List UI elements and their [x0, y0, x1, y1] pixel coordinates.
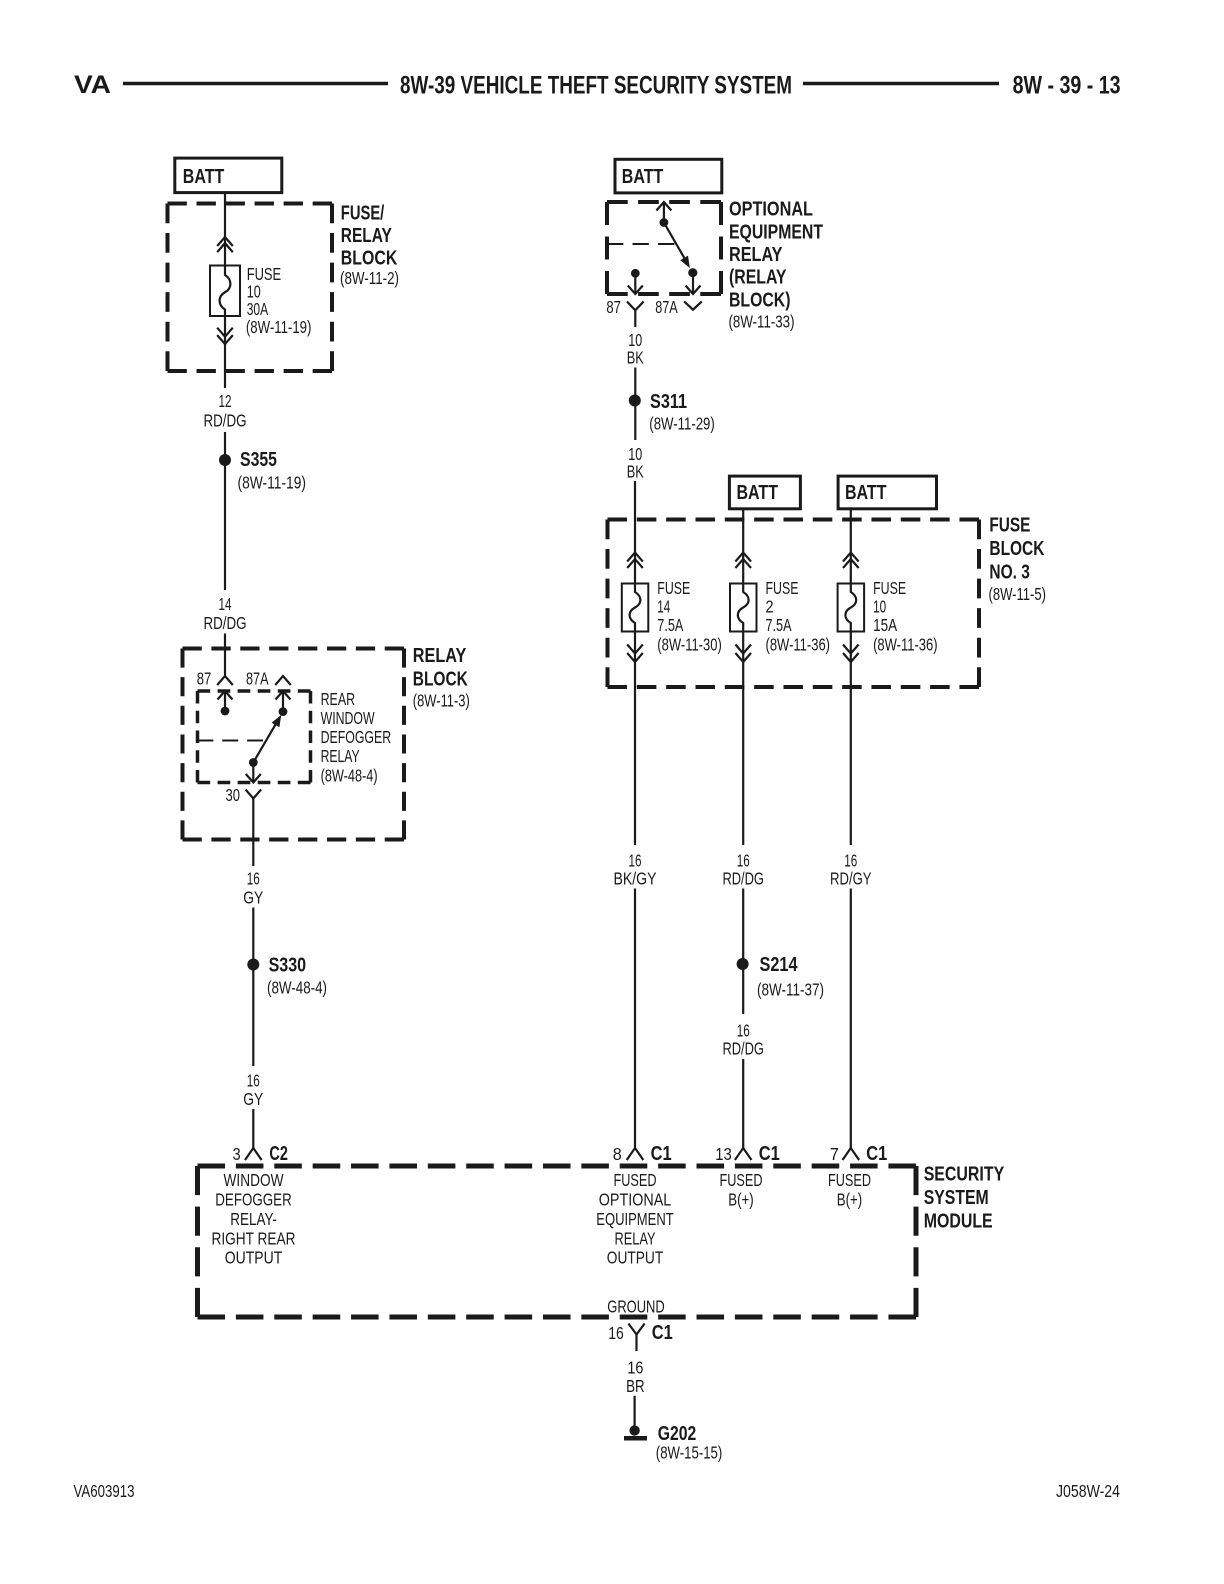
relay pin 87 terminal arrow [218, 691, 233, 700]
svg-text:8W-39 VEHICLE THEFT SECURITY S: 8W-39 VEHICLE THEFT SECURITY SYSTEM [400, 72, 792, 100]
svg-text:VA: VA [74, 71, 111, 99]
svg-text:16: 16 [247, 869, 260, 889]
svg-text:8: 8 [613, 1144, 622, 1164]
optional relay pin 87 terminal arrow [628, 286, 643, 295]
svg-text:87A: 87A [246, 669, 269, 689]
svg-text:DEFOGGER: DEFOGGER [215, 1190, 292, 1210]
svg-text:16: 16 [629, 851, 642, 871]
battery feed BATT (top right) [615, 159, 722, 193]
svg-text:S311: S311 [650, 391, 687, 413]
svg-text:WINDOW: WINDOW [321, 708, 375, 728]
wire: S311 into fuse block to fuse 14 [630, 481, 641, 845]
svg-text:EQUIPMENT: EQUIPMENT [596, 1209, 674, 1229]
svg-text:SYSTEM: SYSTEM [924, 1187, 989, 1209]
svg-text:FUSE: FUSE [873, 578, 906, 598]
svg-text:(8W-11-36): (8W-11-36) [873, 635, 938, 655]
svg-text:BK: BK [627, 462, 644, 482]
svg-text:16: 16 [737, 851, 750, 871]
security system module (dashed box) [198, 1164, 917, 1169]
wire: fuse 14 to module pin 8 [634, 889, 636, 1149]
svg-text:16: 16 [627, 1358, 643, 1378]
rear window defogger relay (inner dashed box) [198, 689, 311, 693]
svg-text:16: 16 [737, 1021, 750, 1041]
connector chevrons below fuse 10 [217, 328, 233, 337]
svg-text:87A: 87A [655, 297, 678, 317]
svg-text:C1: C1 [759, 1143, 780, 1165]
optional relay pin 87A terminal arrow [686, 286, 701, 295]
svg-text:(8W-11-36): (8W-11-36) [766, 635, 831, 655]
svg-text:30A: 30A [247, 299, 269, 319]
wire: S214 to module pin 13 [742, 1059, 744, 1148]
battery feed BATT (above fuse 10) [838, 476, 936, 509]
svg-text:10: 10 [873, 597, 886, 617]
relay block (dashed box) [183, 647, 405, 651]
svg-text:(8W-11-2): (8W-11-2) [340, 268, 399, 288]
svg-text:BK: BK [627, 348, 644, 368]
svg-text:OUTPUT: OUTPUT [607, 1248, 664, 1268]
wire: to splice S330 [252, 908, 254, 1067]
wire: S330 to module pin 3 [252, 1109, 254, 1148]
splice S355 (8W-11-19) [219, 454, 231, 466]
svg-text:FUSED: FUSED [614, 1170, 657, 1190]
wire: BATT to fuse 10 (15A) [845, 508, 856, 845]
battery feed BATT (above fuse 2) [729, 476, 800, 509]
optional relay armature (switch) [664, 223, 688, 264]
fuse 10 30A (8W-11-19) [210, 266, 240, 317]
svg-text:(8W-11-37): (8W-11-37) [757, 980, 824, 1000]
fuse 10 chevrons below [843, 645, 859, 654]
relay pin 87A terminal arrow [276, 691, 291, 700]
connector chevrons above fuse 10 [217, 237, 233, 246]
svg-text:WINDOW: WINDOW [224, 1170, 284, 1190]
fuse block no. 3 (dashed box) [608, 518, 980, 522]
svg-text:2: 2 [766, 597, 774, 617]
svg-text:RD/GY: RD/GY [830, 869, 872, 889]
svg-text:FUSE/: FUSE/ [341, 203, 385, 225]
svg-text:DEFOGGER: DEFOGGER [321, 727, 392, 747]
svg-text:14: 14 [657, 597, 670, 617]
svg-text:BATT: BATT [737, 482, 779, 504]
svg-text:OPTIONAL: OPTIONAL [729, 199, 813, 221]
svg-text:C1: C1 [652, 1322, 673, 1344]
svg-text:J058W-24: J058W-24 [1056, 1481, 1120, 1501]
svg-text:C2: C2 [269, 1143, 288, 1165]
svg-text:VA603913: VA603913 [74, 1481, 135, 1501]
svg-text:OUTPUT: OUTPUT [225, 1248, 283, 1268]
svg-text:MODULE: MODULE [924, 1211, 993, 1233]
svg-text:RIGHT REAR: RIGHT REAR [212, 1229, 296, 1249]
svg-text:87: 87 [606, 297, 621, 317]
svg-text:12: 12 [219, 391, 232, 411]
svg-text:15A: 15A [873, 615, 897, 635]
fuse 14 7.5A chevrons above [627, 553, 643, 562]
wire: S355 to relay pin 87 [224, 634, 226, 677]
wire: module pin 16 to ground G202 [633, 1396, 635, 1426]
svg-text:B(+): B(+) [837, 1190, 863, 1210]
svg-text:(8W-11-3): (8W-11-3) [413, 691, 470, 711]
svg-text:(8W-11-5): (8W-11-5) [989, 584, 1047, 604]
header rule right [803, 82, 999, 86]
optional equipment relay (dashed relay block box) [607, 200, 721, 204]
svg-text:S330: S330 [269, 955, 307, 977]
svg-text:RD/DG: RD/DG [204, 411, 247, 431]
svg-text:RD/DG: RD/DG [722, 1039, 764, 1059]
fuse 2 chevrons below [735, 645, 751, 654]
svg-text:8W - 39 - 13: 8W - 39 - 13 [1013, 72, 1121, 100]
svg-text:REAR: REAR [321, 689, 356, 709]
svg-text:13: 13 [715, 1144, 732, 1164]
relay armature (switch) [253, 717, 280, 763]
svg-text:BLOCK: BLOCK [341, 248, 398, 270]
svg-text:16: 16 [247, 1071, 260, 1091]
svg-text:FUSE: FUSE [766, 578, 799, 598]
svg-text:BR: BR [626, 1376, 645, 1396]
svg-text:BATT: BATT [183, 166, 225, 188]
svg-text:7: 7 [830, 1144, 839, 1164]
svg-text:(8W-11-33): (8W-11-33) [729, 312, 795, 332]
wire: BATT to fuse 10 and out of block [220, 194, 231, 388]
relay pin 30 terminal arrow [246, 774, 261, 783]
svg-text:BK/GY: BK/GY [614, 869, 657, 889]
svg-text:FUSE: FUSE [989, 515, 1030, 537]
svg-text:RELAY: RELAY [615, 1229, 656, 1249]
svg-text:FUSED: FUSED [720, 1170, 763, 1190]
svg-text:S355: S355 [240, 449, 277, 471]
wire: relay pin 30 down [252, 799, 254, 867]
svg-text:(RELAY: (RELAY [729, 267, 787, 289]
svg-text:BATT: BATT [622, 166, 664, 188]
svg-text:(8W-15-15): (8W-15-15) [656, 1443, 723, 1463]
svg-text:BLOCK: BLOCK [413, 669, 468, 691]
fuse 14 7.5A [622, 584, 649, 632]
svg-text:16: 16 [844, 851, 857, 871]
wire: to splice S311 [634, 368, 636, 441]
svg-text:RELAY: RELAY [413, 645, 467, 667]
relay coil divider (dashed) [198, 740, 264, 742]
svg-text:RELAY: RELAY [729, 244, 783, 266]
svg-text:EQUIPMENT: EQUIPMENT [729, 222, 823, 244]
fuse 14 chevrons below [627, 645, 643, 654]
wire: fuse 2 to splice S214 [742, 889, 744, 1015]
svg-text:GY: GY [243, 1089, 263, 1109]
svg-text:BLOCK: BLOCK [989, 538, 1044, 560]
fuse 10 15A [838, 584, 865, 632]
wire: to splice S355 [224, 432, 226, 590]
svg-text:SECURITY: SECURITY [924, 1164, 1005, 1186]
splice S311 (8W-11-29) [629, 395, 641, 407]
svg-text:7.5A: 7.5A [766, 615, 792, 635]
svg-text:B(+): B(+) [728, 1190, 754, 1210]
svg-text:OPTIONAL: OPTIONAL [599, 1190, 672, 1210]
svg-text:(8W-11-30): (8W-11-30) [657, 635, 722, 655]
fuse 2 7.5A chevrons above [735, 553, 751, 562]
svg-text:RELAY: RELAY [321, 746, 360, 766]
splice S214 (8W-11-37) [737, 958, 749, 970]
svg-text:3: 3 [233, 1144, 241, 1164]
svg-text:S214: S214 [760, 954, 799, 976]
svg-text:RD/DG: RD/DG [722, 869, 764, 889]
wire: fuse 10 to module pin 7 [850, 889, 852, 1149]
svg-text:(8W-11-19): (8W-11-19) [238, 473, 307, 493]
svg-text:(8W-11-29): (8W-11-29) [649, 414, 715, 434]
svg-text:RELAY: RELAY [341, 225, 393, 247]
svg-text:RELAY-: RELAY- [230, 1209, 277, 1229]
ground G202 (8W-15-15) [629, 1425, 639, 1435]
splice S330 (8W-48-4) [247, 959, 259, 971]
svg-text:14: 14 [219, 594, 232, 614]
svg-text:C1: C1 [866, 1143, 887, 1165]
svg-text:GY: GY [243, 888, 263, 908]
fuse/relay block (dashed box) [168, 202, 333, 206]
svg-text:BLOCK): BLOCK) [729, 290, 791, 312]
fuse 10 15A chevrons above [843, 553, 859, 562]
wire: BATT to fuse 2 [738, 508, 749, 845]
svg-text:GROUND: GROUND [607, 1297, 665, 1317]
svg-text:16: 16 [608, 1323, 624, 1343]
svg-text:FUSED: FUSED [828, 1170, 871, 1190]
header rule left [123, 82, 388, 86]
svg-text:BATT: BATT [845, 482, 887, 504]
svg-text:RD/DG: RD/DG [204, 613, 247, 633]
svg-text:(8W-48-4): (8W-48-4) [321, 766, 378, 786]
optional relay coil divider (dashed) [607, 243, 674, 245]
svg-text:30: 30 [226, 785, 241, 805]
svg-text:NO. 3: NO. 3 [989, 562, 1030, 584]
svg-text:(8W-11-19): (8W-11-19) [246, 317, 312, 337]
svg-text:FUSE: FUSE [657, 578, 690, 598]
svg-text:(8W-48-4): (8W-48-4) [267, 978, 327, 998]
svg-text:7.5A: 7.5A [657, 615, 683, 635]
battery feed BATT (top left) [175, 158, 282, 193]
fuse 2 7.5A [730, 584, 757, 632]
svg-text:87: 87 [197, 669, 212, 689]
optional relay battery terminal arrow [656, 202, 671, 211]
svg-text:C1: C1 [651, 1143, 672, 1165]
